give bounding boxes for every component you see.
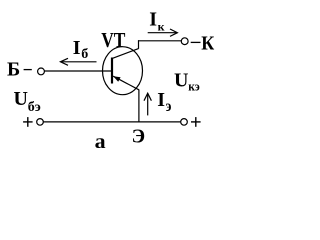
wire collector vertical to top rail xyxy=(138,40,140,49)
label VT xyxy=(101,28,125,52)
svg-text:а: а xyxy=(95,131,106,153)
current arrow Iэ xyxy=(144,93,151,115)
current arrow Iб xyxy=(60,58,96,65)
terminal circle bottom-right xyxy=(181,119,188,126)
svg-text:К: К xyxy=(201,32,214,54)
label К xyxy=(201,32,214,54)
bottom wire (emitter rail) xyxy=(43,121,180,123)
transistor VT collector lead (diagonal) xyxy=(113,49,139,59)
svg-text:Э: Э xyxy=(132,125,146,147)
svg-text:U: U xyxy=(174,69,188,91)
label Э (emitter) xyxy=(132,125,146,147)
svg-text:б: б xyxy=(81,47,88,62)
label Iб xyxy=(73,37,89,62)
svg-text:I: I xyxy=(157,89,165,111)
svg-text:Б: Б xyxy=(7,59,20,81)
label Б xyxy=(7,59,20,81)
svg-text:I: I xyxy=(73,37,81,59)
current arrow Iк xyxy=(148,29,178,36)
plus sign left xyxy=(23,117,32,127)
emitter wire down to bottom rail xyxy=(138,90,140,122)
wire top rail to terminal K xyxy=(138,40,181,42)
label Iк xyxy=(149,9,164,34)
svg-text:кэ: кэ xyxy=(188,78,200,93)
transistor VT base bar xyxy=(111,58,113,84)
svg-text:VT: VT xyxy=(101,28,125,52)
dash before К xyxy=(191,41,201,43)
svg-text:к: к xyxy=(158,20,165,34)
dash after Б xyxy=(24,69,32,71)
label Uкэ xyxy=(174,69,200,93)
label Iэ xyxy=(157,89,171,115)
transistor VT emitter lead (diagonal with PNP arrow into base bar) xyxy=(113,76,139,90)
wire base from terminal Б to transistor xyxy=(44,70,111,72)
svg-text:э: э xyxy=(166,98,172,115)
svg-text:бэ: бэ xyxy=(28,100,41,115)
svg-text:I: I xyxy=(149,9,157,31)
terminal К circle xyxy=(181,38,188,45)
terminal circle bottom-left xyxy=(37,119,44,126)
plus sign right xyxy=(191,117,201,127)
label Uбэ xyxy=(14,88,41,115)
svg-text:U: U xyxy=(14,88,28,110)
label а (figure sublabel) xyxy=(95,131,106,153)
terminal Б circle xyxy=(38,68,45,75)
transistor VT body circle xyxy=(103,47,143,95)
